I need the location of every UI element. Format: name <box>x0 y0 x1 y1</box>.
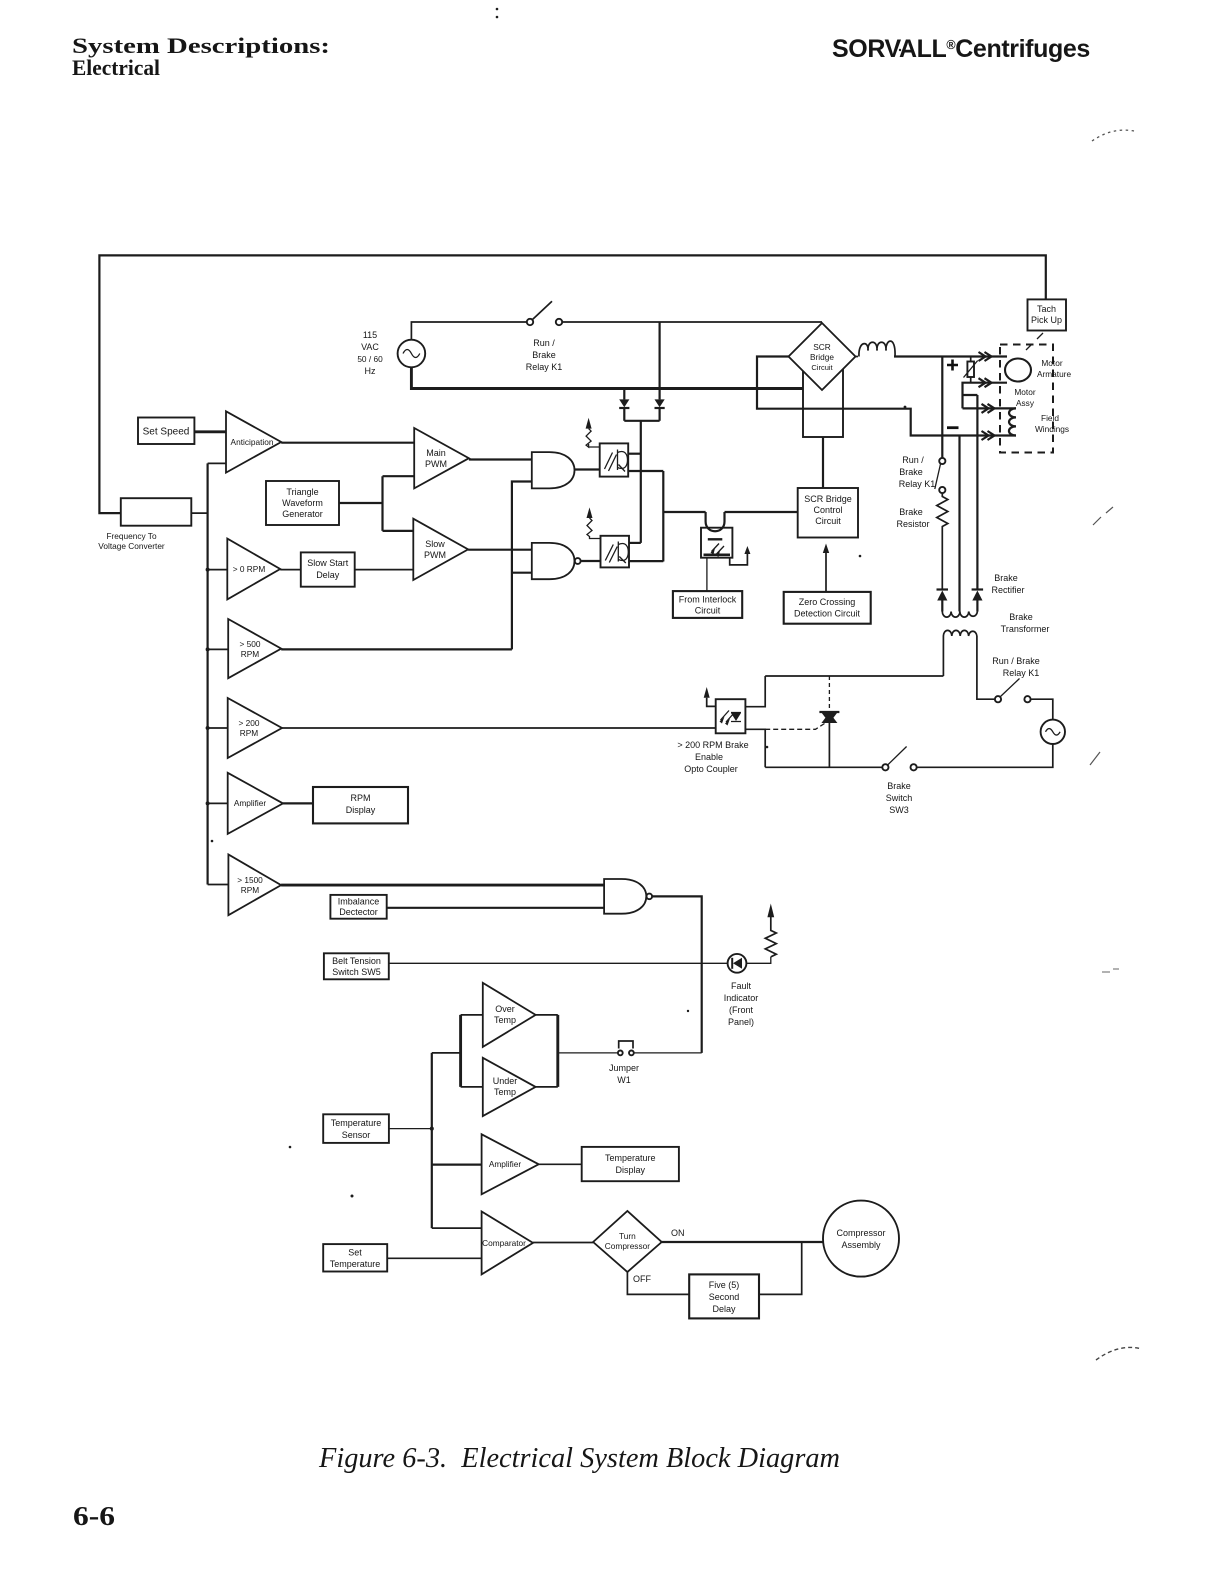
svg-text:Display: Display <box>616 1165 646 1175</box>
box: triangle waveform generator <box>266 481 339 525</box>
svg-text:Sensor: Sensor <box>342 1130 371 1140</box>
svg-text:Compressor: Compressor <box>836 1228 885 1238</box>
wire: ON path to compressor <box>662 1241 824 1243</box>
svg-text:50 / 60: 50 / 60 <box>357 354 383 364</box>
wire: ac source bottom line to SCR bridge bottom vertex <box>411 367 822 389</box>
motor armature <box>1005 359 1031 382</box>
box: set speed <box>138 418 194 445</box>
svg-text:RPM: RPM <box>241 885 260 895</box>
switch: SW3 left contact <box>882 764 888 770</box>
svg-text:PWM: PWM <box>425 459 447 469</box>
opto-coupler U1 (main PWM) <box>600 443 629 476</box>
transformer: brake transformer primary <box>942 612 977 618</box>
wire: temperature sensor to bus <box>389 1128 432 1130</box>
svg-text:Under: Under <box>493 1076 518 1086</box>
svg-text:Amplifier: Amplifier <box>489 1159 522 1169</box>
wire: secondary left lead to triac line <box>942 636 944 676</box>
wire: triac gate dashed from opto <box>765 724 824 730</box>
bus: temperature signal vertical <box>431 1053 433 1228</box>
svg-text:Rectifier: Rectifier <box>991 585 1024 595</box>
motor assembly dashed enclosure <box>1000 345 1053 453</box>
op-amp: over temp <box>483 983 536 1047</box>
svg-text:Brake: Brake <box>899 507 923 517</box>
svg-text:Set: Set <box>348 1248 362 1258</box>
svg-text:Generator: Generator <box>282 509 323 519</box>
svg-text:Circuit: Circuit <box>811 363 833 372</box>
wire: freq converter output to speed bus <box>191 512 207 514</box>
transformer: brake transformer secondary <box>943 630 977 636</box>
op-amp: temperature amplifier <box>482 1134 539 1194</box>
wire: emitter bus to interlock and SCR control <box>663 511 797 513</box>
switch: blade <box>1001 679 1020 697</box>
wire: field winding top lead <box>963 407 1017 409</box>
interlock opto LED slashes <box>712 544 725 555</box>
jumper W1 <box>618 1051 623 1056</box>
svg-text:Brake: Brake <box>532 350 556 360</box>
svg-text:Field: Field <box>1041 413 1059 423</box>
svg-text:OFF: OFF <box>633 1274 651 1284</box>
box: slow start delay <box>301 552 355 586</box>
tach pick up box <box>1028 299 1067 330</box>
wire: delay output rejoin ON line <box>759 1242 802 1294</box>
diode D2 (pwm opto feed right) <box>658 389 660 400</box>
svg-text:Enable: Enable <box>695 752 723 762</box>
led: fault indicator <box>728 954 747 973</box>
svg-text:Brake: Brake <box>887 781 911 791</box>
wire: bus to temp amplifier <box>432 1163 482 1165</box>
wire: interlock opto right return with arrow <box>730 554 748 565</box>
circle: compressor assembly <box>823 1201 899 1277</box>
wire: >0 RPM to slow start delay <box>280 569 301 571</box>
box: belt tension switch SW5 <box>324 953 389 979</box>
wire: bus to comparator upper input <box>432 1227 482 1229</box>
switch: bottom contact <box>939 487 945 493</box>
switch: SW3 blade <box>888 747 907 765</box>
wire: slow start delay to slow PWM <box>355 569 414 571</box>
svg-text:> 500: > 500 <box>240 639 261 649</box>
svg-text:Motor: Motor <box>1014 387 1035 397</box>
svg-text:Second: Second <box>709 1292 740 1302</box>
wire: secondary right lead to relay <box>977 636 995 699</box>
svg-text:Control: Control <box>813 505 842 515</box>
op-amp: main PWM <box>414 428 469 488</box>
svg-text:Pick Up: Pick Up <box>1031 315 1062 325</box>
wire: opto light arrow top left <box>704 687 710 698</box>
op-amp: anticipation comparator <box>226 411 281 472</box>
svg-text:Turn: Turn <box>619 1231 636 1241</box>
wire: armature positive lead <box>894 355 1007 357</box>
svg-text:> 200 RPM Brake: > 200 RPM Brake <box>677 740 748 750</box>
opto-coupler: >200 RPM brake enable <box>716 699 746 733</box>
svg-text:Armature: Armature <box>1037 369 1072 379</box>
wire: NAND output to opto U2 <box>581 560 601 562</box>
wire: triac line (transformer to opto) <box>765 675 943 677</box>
switch: run/brake relay K1 blade <box>533 301 553 319</box>
wire: gate enable vertical <box>512 482 532 650</box>
svg-text:6-6: 6-6 <box>73 1501 115 1531</box>
svg-text:Display: Display <box>346 805 376 815</box>
dashed pointer from tach to motor <box>1026 333 1043 350</box>
svg-text:Brake: Brake <box>994 573 1018 583</box>
svg-text:SORVALL®Centrifuges: SORVALL®Centrifuges <box>832 35 1090 63</box>
svg-text:Temp: Temp <box>494 1015 516 1025</box>
svg-text:Run /: Run / <box>902 455 924 465</box>
svg-text:Temperature: Temperature <box>605 1153 656 1163</box>
wire: enable tap to NAND lower input <box>512 572 532 574</box>
switch: brake switch SW3 right contact <box>911 764 917 770</box>
label: minus sign <box>947 426 959 429</box>
wire: jumper to NAND drop <box>634 1052 701 1054</box>
svg-text:RPM: RPM <box>241 649 260 659</box>
block: over/under temp window frame left <box>459 1015 462 1087</box>
svg-text:Windings: Windings <box>1035 424 1069 434</box>
bus: brake bus B center tap <box>958 436 960 612</box>
svg-text:Temp: Temp <box>494 1087 516 1097</box>
switch: right contact <box>1024 696 1030 702</box>
svg-text:Detection Circuit: Detection Circuit <box>794 609 861 619</box>
op-amp: rpm display amplifier <box>228 773 283 834</box>
wire: diode common bar <box>624 420 659 422</box>
wire: U1 emitter to control bus <box>628 470 663 472</box>
svg-text:SW3: SW3 <box>889 805 909 815</box>
svg-text:Delay: Delay <box>712 1304 736 1314</box>
wire: TWG output tee <box>339 476 414 531</box>
opto-coupler U2 (slow PWM) <box>601 536 630 568</box>
wire: ac source V2 to brake switch <box>917 744 1053 767</box>
svg-text:RPM: RPM <box>240 728 259 738</box>
box: five second delay <box>689 1274 759 1318</box>
svg-text:Electrical: Electrical <box>72 55 160 80</box>
switch: run/brake relay K1 contact right <box>556 319 562 325</box>
wire: U2 emitter to control bus <box>629 560 663 562</box>
svg-text:Bridge: Bridge <box>810 352 834 362</box>
svg-text:Panel): Panel) <box>728 1017 754 1027</box>
svg-text:Switch SW5: Switch SW5 <box>332 967 381 977</box>
svg-text:Zero Crossing: Zero Crossing <box>799 597 856 607</box>
wire: relay K1 to SCR bridge top vertex <box>562 321 822 323</box>
svg-text:Anticipation: Anticipation <box>231 437 274 447</box>
op-amp: >200 RPM comparator <box>228 698 282 758</box>
connector: field top chevrons <box>982 404 995 413</box>
diode D1 (pwm opto feed left) <box>623 389 625 400</box>
svg-text:> 200: > 200 <box>239 718 260 728</box>
svg-text:(Front: (Front <box>729 1005 754 1015</box>
svg-text:VAC: VAC <box>361 342 379 352</box>
svg-text:Tach: Tach <box>1037 304 1056 314</box>
wire: anticipation output to main pwm <box>281 442 414 444</box>
box: SCR bridge control circuit <box>798 488 858 538</box>
op-amp: >0 RPM comparator <box>227 539 280 600</box>
wire: SCR left vertex to minus rail <box>757 357 1016 436</box>
wire: comparator to decision diamond <box>533 1242 593 1244</box>
svg-text:Motor: Motor <box>1041 358 1062 368</box>
svg-text:Circuit: Circuit <box>815 516 841 526</box>
box: zero crossing detection circuit <box>784 592 871 624</box>
svg-text:Belt Tension: Belt Tension <box>332 956 381 966</box>
gate: AND U3A <box>532 452 575 488</box>
svg-text:Frequency To: Frequency To <box>106 531 157 541</box>
box: from interlock circuit <box>673 591 742 618</box>
wire: imbalance to NAND <box>387 907 604 909</box>
svg-text:Brake: Brake <box>899 467 923 477</box>
opto internals: LED arrows <box>721 711 735 723</box>
wire: opto collector bus <box>640 421 642 543</box>
wire: >500 RPM output to gate enable bus <box>281 648 512 650</box>
wire: opto bottom output down to brake line <box>745 729 765 767</box>
op-amp: slow PWM <box>413 519 468 580</box>
triac: brake triac body <box>821 713 837 724</box>
inductor: field windings <box>1009 408 1016 435</box>
wire: brake switch line to opto drop <box>765 766 882 768</box>
wire: set speed to anticipation <box>194 430 226 433</box>
connector: armature - chevrons <box>979 378 992 387</box>
wire: armature negative lead with jog <box>963 383 1008 409</box>
wire: U1 collector to diode bar bus <box>628 453 641 455</box>
op-amp: temperature comparator <box>482 1212 533 1275</box>
varistor on armature leads <box>970 357 972 362</box>
inductor: motor armature feed choke <box>856 356 859 358</box>
wire: NAND fault output down to jumper line <box>652 896 702 1053</box>
wire: opto top output up to triac line <box>745 676 765 707</box>
svg-text:Compressor: Compressor <box>605 1241 650 1251</box>
wire: slow PWM output to NAND gate <box>468 549 532 551</box>
svg-text:Run /: Run / <box>533 338 555 348</box>
svg-text:Hz: Hz <box>365 366 376 376</box>
junction: bus tap >500 RPM <box>206 647 210 651</box>
svg-text:Main: Main <box>426 448 446 458</box>
light arrow into U1 <box>586 418 592 429</box>
opto internals: triac chip <box>731 713 741 721</box>
svg-text:Transformer: Transformer <box>1001 624 1050 634</box>
wire: bus bottom to >1500 input <box>208 884 229 886</box>
interlock opto bottom bar <box>704 553 731 556</box>
svg-text:Indicator: Indicator <box>724 993 759 1003</box>
ac source V2 (brake supply) <box>1031 699 1053 719</box>
arrow: fault supply <box>767 904 774 918</box>
svg-text:Triangle: Triangle <box>286 487 318 497</box>
svg-text:SCR Bridge: SCR Bridge <box>804 494 852 504</box>
svg-text:Amplifier: Amplifier <box>234 798 267 808</box>
svg-text:Jumper: Jumper <box>609 1063 639 1073</box>
wire: SCR rect to SCR bridge control circuit <box>822 437 824 488</box>
box: frequency to voltage converter <box>121 498 192 526</box>
wire: U2 collector to bus <box>629 542 641 544</box>
op-amp: under temp <box>483 1058 536 1116</box>
svg-text:115: 115 <box>363 330 377 340</box>
wire: outer top border from left rail to tach drop <box>99 255 1045 513</box>
wire: LED to resistor <box>746 957 770 963</box>
wire: ac source top to relay K1 <box>411 322 526 340</box>
wire: >200 RPM to brake enable opto <box>282 727 716 729</box>
junction: bus tap >200 <box>206 726 210 730</box>
op-amp: >500 RPM comparator <box>228 619 281 678</box>
diode: brake rectifier right <box>972 588 984 590</box>
connector: armature + chevrons <box>979 352 992 361</box>
wire: amplifier to rpm display <box>283 802 313 804</box>
svg-text:Temperature: Temperature <box>331 1118 382 1128</box>
switch: run/brake relay K1 (brake resistor) top contact <box>939 458 945 464</box>
svg-text:Resistor: Resistor <box>896 519 929 529</box>
ac source V1: 115 VAC 50/60 Hz <box>398 340 426 368</box>
svg-text:From Interlock: From Interlock <box>679 595 737 605</box>
wire: set temperature to comparator <box>387 1257 481 1259</box>
light arrow into U2 <box>587 507 593 518</box>
svg-text:Brake: Brake <box>1009 612 1033 622</box>
svg-text:Delay: Delay <box>316 570 340 580</box>
svg-text:Over: Over <box>495 1004 515 1014</box>
wire: bus tap to anticipation lower input <box>208 462 226 464</box>
wire: main PWM output to AND gate <box>469 458 532 460</box>
bus: opto emitter common <box>662 471 664 562</box>
scan artifacts <box>1092 130 1134 141</box>
svg-text:RPM: RPM <box>351 793 371 803</box>
svg-text:Assembly: Assembly <box>841 1240 881 1250</box>
wire: belt tension fault line <box>389 962 728 964</box>
svg-text:Relay K1: Relay K1 <box>526 362 563 372</box>
svg-text:Five (5): Five (5) <box>709 1280 740 1290</box>
svg-text:Waveform: Waveform <box>282 498 323 508</box>
diamond: turn compressor decision <box>593 1211 662 1272</box>
triac: brake enable triac vertical <box>828 676 830 713</box>
svg-text:> 1500: > 1500 <box>237 875 263 885</box>
wire: drop from run line to lower ac line <box>658 322 660 389</box>
wire: >1500 output to NAND <box>281 884 604 887</box>
svg-text:> 0 RPM: > 0 RPM <box>233 564 266 574</box>
svg-text:Fault: Fault <box>731 981 752 991</box>
diamond: SCR bridge circuit <box>789 323 856 390</box>
node: speed signal bus (left vertical) <box>207 463 209 884</box>
junction: bus tap >0 RPM <box>206 568 210 572</box>
wire: window output to jumper W1 <box>558 1052 618 1054</box>
svg-text:Comparator: Comparator <box>482 1238 526 1248</box>
svg-text:Figure 6-3. Electrical System: Figure 6-3. Electrical System Block Diag… <box>318 1443 840 1474</box>
opto-coupler: interlock opto <box>701 528 732 558</box>
svg-text:Slow: Slow <box>425 539 445 549</box>
bus: brake bus C <box>976 395 978 589</box>
wire: AND output to opto U1 <box>575 468 600 470</box>
svg-text:Run / Brake: Run / Brake <box>992 656 1040 666</box>
svg-text:Switch: Switch <box>886 793 913 803</box>
switch: run/brake relay K1 contact left <box>527 319 533 325</box>
box: SCR bridge rectangle below diamond <box>803 370 843 437</box>
switch: run/brake relay K1 (brake ac) left contact <box>995 696 1001 702</box>
gate: NAND U3B <box>532 543 575 579</box>
gate: NAND fault <box>604 879 646 914</box>
box: set temperature <box>323 1244 387 1271</box>
box: RPM display <box>313 787 408 823</box>
box: temperature display <box>582 1147 679 1181</box>
svg-text:Slow Start: Slow Start <box>307 558 349 568</box>
label: plus sign <box>947 360 958 371</box>
interlock opto phototransistor cup <box>706 512 725 531</box>
junction: bus tap amplifier <box>206 801 210 805</box>
svg-text:W1: W1 <box>617 1075 631 1085</box>
svg-text:Relay K1: Relay K1 <box>1003 668 1040 678</box>
wire: amplifier to temperature display <box>539 1163 582 1165</box>
wire: temp bus to window input <box>432 1052 461 1054</box>
resistor: brake resistor <box>937 493 948 589</box>
svg-text:Relay K1: Relay K1 <box>899 479 936 489</box>
box: temperature sensor <box>323 1114 389 1143</box>
svg-text:Imbalance: Imbalance <box>338 897 380 907</box>
svg-text:Temperature: Temperature <box>330 1259 381 1269</box>
resistor: fault pull-up <box>765 917 776 957</box>
svg-text:Circuit: Circuit <box>695 606 721 616</box>
svg-text:Opto Coupler: Opto Coupler <box>684 764 738 774</box>
wire: interlock opto to from-interlock box <box>706 558 708 591</box>
diode: brake rectifier left <box>937 588 949 590</box>
connector: field bottom chevrons <box>982 431 995 440</box>
op-amp: >1500 RPM comparator <box>228 855 281 916</box>
svg-text:Dectector: Dectector <box>339 907 378 917</box>
svg-text:Voltage Converter: Voltage Converter <box>98 541 165 551</box>
bus: run bus A from + line down <box>941 357 943 459</box>
block: over/under frame right <box>556 1015 559 1087</box>
wire: OFF path to delay box <box>627 1272 689 1294</box>
svg-text:PWM: PWM <box>424 550 446 560</box>
svg-text:Set Speed: Set Speed <box>143 427 190 438</box>
svg-text:Assy: Assy <box>1016 398 1035 408</box>
svg-text:ON: ON <box>671 1228 685 1238</box>
box: imbalance detector <box>330 895 386 919</box>
svg-text:SCR: SCR <box>813 342 831 352</box>
wire: zero crossing to SCR control with arrow <box>825 553 827 592</box>
switch: relay blade <box>935 464 941 489</box>
